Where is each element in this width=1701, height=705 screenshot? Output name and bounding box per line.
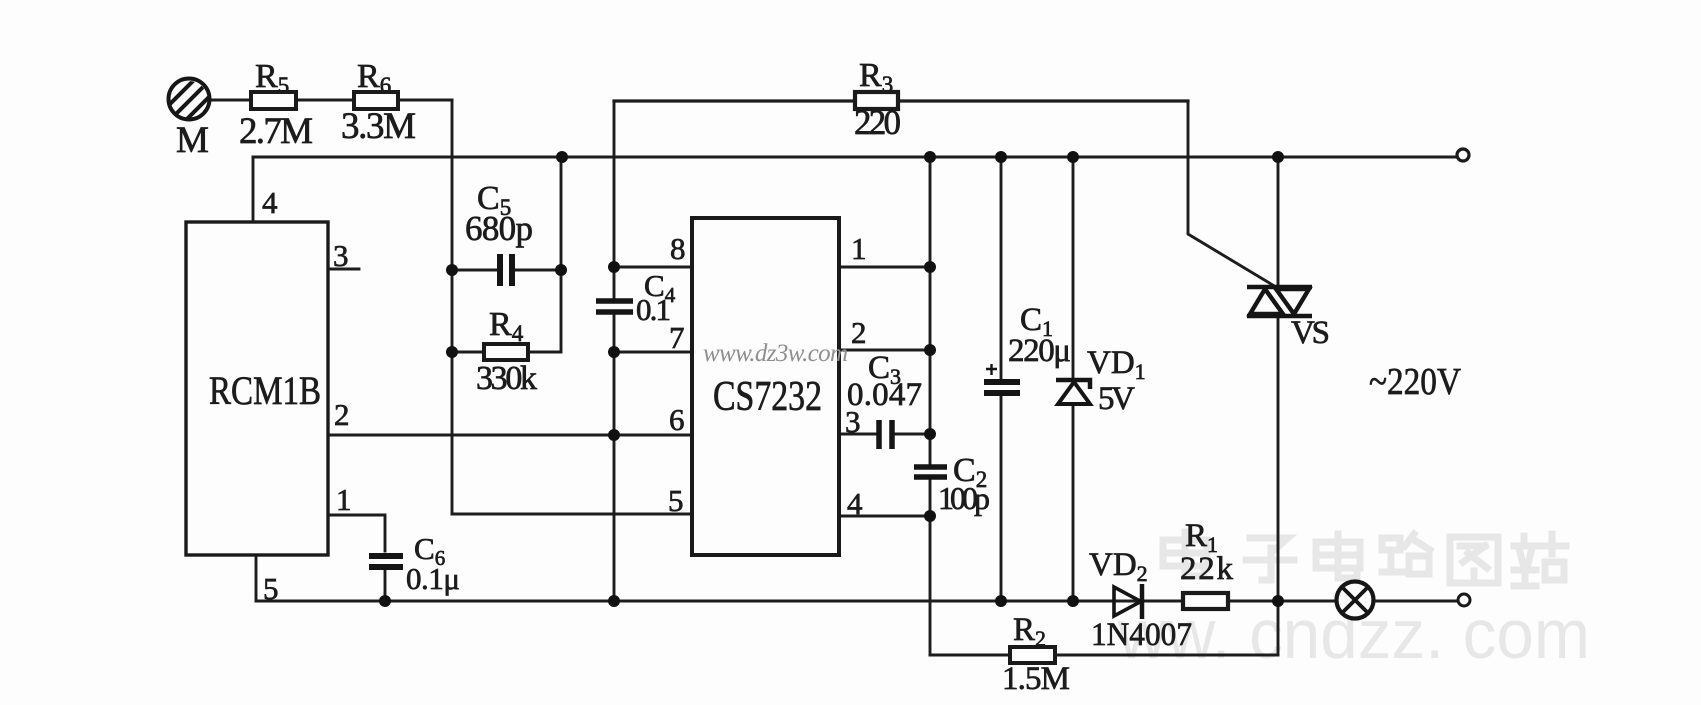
svg-text:0.047: 0.047 (847, 377, 922, 413)
svg-text:1: 1 (336, 482, 352, 517)
svg-text:2: 2 (334, 397, 350, 432)
svg-text:RCM1B: RCM1B (209, 368, 321, 413)
svg-text:6: 6 (669, 402, 685, 437)
svg-text:220μ: 220μ (1008, 333, 1071, 369)
svg-text:100p: 100p (938, 480, 990, 516)
svg-text:8: 8 (670, 231, 686, 266)
svg-text:4: 4 (847, 486, 863, 521)
svg-text:1.5M: 1.5M (1002, 661, 1070, 697)
svg-text:CS7232: CS7232 (713, 374, 822, 420)
svg-text:5: 5 (263, 571, 279, 606)
svg-text:VS: VS (1291, 315, 1330, 351)
svg-text:2: 2 (851, 315, 867, 350)
svg-text:330k: 330k (476, 360, 537, 397)
svg-text:3: 3 (333, 238, 349, 273)
svg-text:1N4007: 1N4007 (1091, 617, 1192, 653)
svg-text:2.7M: 2.7M (239, 111, 313, 152)
svg-text:5V: 5V (1098, 381, 1135, 417)
svg-text:0.1: 0.1 (636, 292, 671, 327)
svg-text:~220V: ~220V (1369, 361, 1461, 403)
svg-text:680p: 680p (465, 209, 533, 248)
svg-text:4: 4 (262, 185, 278, 220)
svg-text:M: M (176, 120, 209, 161)
svg-text:220: 220 (854, 103, 901, 142)
svg-text:www.dz3w.com: www.dz3w.com (703, 340, 848, 367)
svg-text:0.1μ: 0.1μ (406, 561, 460, 596)
svg-text:22k: 22k (1180, 551, 1234, 587)
svg-text:5: 5 (668, 483, 684, 518)
svg-text:1: 1 (851, 231, 867, 266)
svg-text:7: 7 (669, 320, 685, 355)
svg-text:3.3M: 3.3M (341, 106, 416, 147)
